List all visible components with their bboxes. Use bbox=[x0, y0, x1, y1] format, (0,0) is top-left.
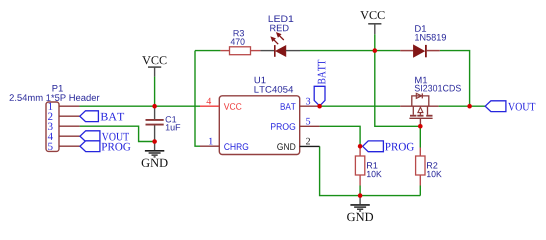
P1 pin 1 bbox=[49, 103, 80, 110]
U1 pin 4 VCC bbox=[200, 98, 242, 110]
resistor R2 10K bbox=[416, 148, 442, 186]
junction at M1 gate node bbox=[418, 124, 423, 129]
capacitor C1 1uF bbox=[146, 106, 181, 141]
wire: BAT node to M1 source bbox=[320, 105, 401, 107]
op-amp U1 LTC4054 charger IC body bbox=[219, 77, 299, 155]
net flag VOUT right bbox=[485, 101, 535, 112]
junction at VOUT node bbox=[467, 104, 472, 109]
junction at VCC/C1 node bbox=[152, 104, 157, 109]
diode D1 1N5819 bbox=[400, 25, 446, 57]
wire: P1 pin3 to ground node below C1 bbox=[80, 126, 155, 141]
wire: U1 PROG pin to R1 top node bbox=[320, 126, 361, 146]
net flag VOUT on P1 pin 4 bbox=[80, 131, 129, 142]
LED LED1 RED bbox=[260, 16, 300, 57]
ground symbol below C1 bbox=[142, 142, 168, 168]
transistor M1 SI2301CDS P-MOSFET bbox=[400, 77, 461, 127]
wire: LED1 anode to VCC junction bbox=[300, 50, 375, 52]
wire: gate node down to R2 top bbox=[419, 126, 421, 147]
power symbol VCC left bbox=[142, 56, 166, 76]
connector P1 2.54mm 1*5P header bbox=[10, 85, 100, 151]
resistor R3 470 bbox=[220, 30, 260, 55]
wire: main VCC rail from P1 pin1 to U1 VCC pin bbox=[79, 105, 200, 107]
net flag BAT bbox=[80, 111, 124, 122]
net flag BATT bbox=[314, 60, 325, 106]
resistor R1 10K bbox=[355, 146, 381, 185]
net flag PROG on P1 pin 5 bbox=[80, 141, 131, 152]
power symbol VCC top right bbox=[360, 11, 384, 34]
junction at PROG/R1 node bbox=[358, 144, 363, 149]
junction at BAT node bbox=[317, 104, 322, 109]
wire: VCC down to M1 gate node bbox=[375, 51, 421, 127]
wire: R2 bottom to ground bus bbox=[419, 186, 421, 196]
ground symbol bottom bbox=[347, 196, 373, 222]
U1 pin 1 CHRG bbox=[200, 138, 248, 150]
U1 pin 3 BAT bbox=[281, 98, 320, 110]
junction at ground bus bbox=[358, 193, 363, 198]
P1 pin 5 bbox=[48, 143, 80, 150]
wire: U1 GND pin to ground bus bbox=[320, 146, 421, 195]
P1 pin 3 bbox=[48, 123, 80, 130]
P1 pin 2 bbox=[48, 113, 80, 120]
junction at VCC/D1 node bbox=[373, 48, 378, 53]
wire: D1 cathode to VOUT node bbox=[440, 51, 470, 107]
junction at C1/GND node bbox=[152, 139, 157, 144]
wire: R1 bottom to ground bus bbox=[359, 186, 361, 196]
P1 pin 4 bbox=[48, 133, 80, 140]
wire: top rail to R3 bbox=[195, 50, 220, 52]
net flag PROG at R1 top bbox=[363, 141, 414, 152]
wire: left riser from top rail down to CHRG bbox=[195, 51, 200, 147]
U1 pin 2 GND bbox=[277, 138, 319, 150]
wire: VCC junction to D1 anode bbox=[375, 50, 400, 52]
wire: VCC power symbol drop to rail bbox=[154, 77, 156, 107]
wire: M1 drain to VOUT flag bbox=[439, 105, 486, 107]
wire: VCC right symbol drop bbox=[374, 34, 376, 50]
U1 pin 5 PROG bbox=[271, 118, 320, 130]
